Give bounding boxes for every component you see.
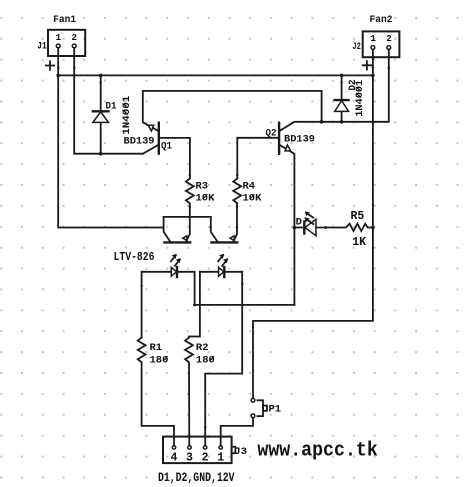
svg-text:2: 2 bbox=[72, 32, 78, 43]
svg-text:D: D bbox=[296, 217, 302, 229]
svg-text:Q2: Q2 bbox=[266, 128, 277, 140]
svg-text:10K: 10K bbox=[243, 192, 263, 204]
svg-text:3: 3 bbox=[186, 452, 193, 465]
svg-text:BD139: BD139 bbox=[124, 135, 155, 147]
svg-text:BD139: BD139 bbox=[284, 134, 315, 146]
svg-text:4: 4 bbox=[171, 452, 178, 465]
svg-text:R3: R3 bbox=[196, 181, 209, 193]
svg-text:1: 1 bbox=[56, 32, 62, 43]
svg-text:J1: J1 bbox=[37, 41, 47, 53]
svg-text:LTV-826: LTV-826 bbox=[114, 251, 155, 264]
svg-text:180: 180 bbox=[196, 354, 215, 366]
svg-text:Fan1: Fan1 bbox=[53, 14, 76, 26]
svg-text:180: 180 bbox=[150, 354, 169, 366]
svg-text:1N4001: 1N4001 bbox=[354, 80, 366, 117]
svg-text:Fan2: Fan2 bbox=[370, 14, 393, 26]
svg-text:1: 1 bbox=[217, 452, 224, 465]
svg-text:1N4001: 1N4001 bbox=[121, 96, 133, 135]
svg-text:2: 2 bbox=[202, 452, 209, 465]
svg-text:J2: J2 bbox=[352, 41, 361, 53]
svg-text:R2: R2 bbox=[196, 342, 209, 354]
svg-text:D1,D2,GND,12V: D1,D2,GND,12V bbox=[158, 470, 235, 485]
svg-text:J3: J3 bbox=[234, 446, 247, 458]
svg-text:2: 2 bbox=[386, 33, 392, 44]
svg-text:1K: 1K bbox=[352, 236, 366, 249]
svg-text:R4: R4 bbox=[243, 181, 256, 193]
svg-text:R5: R5 bbox=[351, 210, 365, 223]
svg-text:R1: R1 bbox=[150, 342, 163, 354]
svg-text:1: 1 bbox=[370, 33, 376, 44]
svg-text:D1: D1 bbox=[106, 101, 117, 113]
svg-text:P1: P1 bbox=[269, 404, 282, 416]
svg-text:www.apcc.tk: www.apcc.tk bbox=[257, 439, 377, 462]
svg-text:Q1: Q1 bbox=[161, 141, 172, 153]
svg-text:10K: 10K bbox=[196, 192, 216, 204]
